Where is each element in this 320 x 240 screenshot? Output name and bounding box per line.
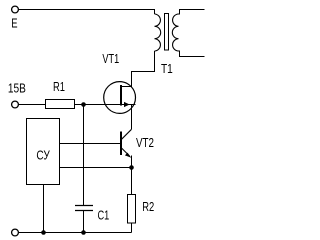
svg-text:R2: R2 xyxy=(142,199,154,214)
terminal 15V xyxy=(12,101,19,108)
wire: СУ bottom lead to common rail xyxy=(43,185,45,233)
op block СУ (control unit) xyxy=(27,119,60,185)
wire: secondary top lead xyxy=(179,10,205,15)
svg-text:E: E xyxy=(11,16,18,31)
wire: VT2 emitter to junction xyxy=(131,156,133,168)
core xyxy=(165,14,169,51)
wire: СУ output A to VT2 base xyxy=(60,143,122,145)
wire: R1 to VT1 base xyxy=(75,104,136,106)
wire: R2 bottom to common rail xyxy=(131,223,133,233)
wire: C1 bottom to common rail xyxy=(83,211,85,233)
wire: СУ output B to emitter node xyxy=(60,167,132,169)
junction node at R1 output xyxy=(81,102,86,107)
svg-text:R1: R1 xyxy=(53,79,65,94)
wire top: terminal E to transformer primary top xyxy=(19,10,155,15)
resistor R2 xyxy=(128,195,136,224)
svg-text:15В: 15В xyxy=(8,81,26,96)
wire: junction to R2 xyxy=(131,168,133,196)
wire: bottom common rail xyxy=(19,232,132,234)
wire: VT1 emitter down to VT2 collector xyxy=(131,105,133,130)
svg-text:СУ: СУ xyxy=(36,148,50,163)
resistor R1 xyxy=(46,100,75,109)
terminal common (bottom) xyxy=(12,229,19,236)
junction node СУ on rail xyxy=(41,230,46,235)
transistor VT1 xyxy=(104,72,136,114)
wire: secondary bottom lead xyxy=(179,51,205,57)
transformer T1 xyxy=(155,14,179,52)
secondary winding (right) xyxy=(172,14,178,51)
svg-text:T1: T1 xyxy=(161,61,173,76)
capacitor C1 xyxy=(75,206,93,211)
wire: junction down to C1 xyxy=(83,105,85,206)
wire: 15V terminal to R1 xyxy=(19,104,46,106)
terminal E xyxy=(12,6,19,13)
junction node at emitter / R2 xyxy=(129,165,134,170)
svg-text:C1: C1 xyxy=(98,208,110,223)
junction node C1 on rail xyxy=(81,230,86,235)
wire: primary bottom to VT1 collector xyxy=(132,51,155,87)
svg-text:VT1: VT1 xyxy=(102,51,119,66)
svg-text:VT2: VT2 xyxy=(136,135,154,150)
transistor VT2 xyxy=(121,129,132,157)
primary winding (left) xyxy=(155,14,161,51)
